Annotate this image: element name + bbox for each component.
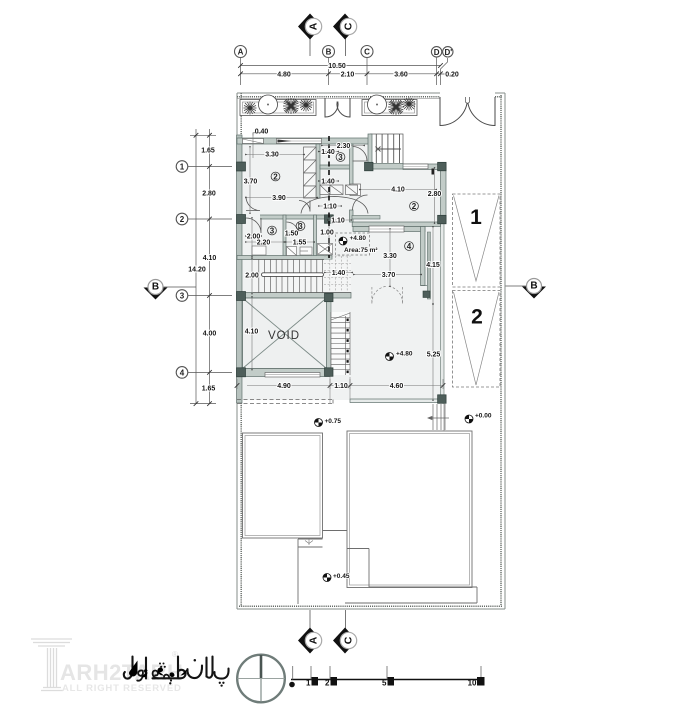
svg-text:B: B — [326, 48, 332, 57]
svg-text:1.40: 1.40 — [321, 149, 335, 156]
svg-text:4.80: 4.80 — [277, 71, 291, 78]
svg-text:2: 2 — [180, 215, 185, 224]
svg-text:B: B — [152, 282, 159, 293]
svg-text:ARH2TARH: ARH2TARH — [60, 660, 183, 685]
svg-text:C: C — [343, 22, 355, 30]
svg-text:3: 3 — [270, 227, 275, 236]
svg-text:1.40: 1.40 — [321, 179, 335, 186]
svg-text:+0.00: +0.00 — [475, 413, 492, 420]
svg-text:4.10: 4.10 — [203, 255, 217, 262]
svg-text:10.50: 10.50 — [328, 63, 346, 70]
svg-text:A: A — [308, 22, 320, 30]
svg-text:2.20: 2.20 — [257, 240, 271, 247]
svg-text:1: 1 — [470, 206, 482, 229]
svg-text:+0.75: +0.75 — [325, 418, 342, 425]
svg-text:5.25: 5.25 — [427, 352, 441, 359]
svg-text:4.10: 4.10 — [391, 187, 405, 194]
svg-text:3.30: 3.30 — [265, 151, 279, 158]
svg-text:3.70: 3.70 — [382, 272, 396, 279]
svg-text:2: 2 — [273, 173, 278, 182]
svg-text:0.20: 0.20 — [445, 72, 459, 79]
svg-text:4: 4 — [407, 242, 412, 251]
svg-text:3.60: 3.60 — [394, 71, 408, 78]
svg-text:14.20: 14.20 — [188, 267, 206, 274]
svg-text:10: 10 — [468, 679, 477, 688]
svg-text:Area:75 m²: Area:75 m² — [344, 247, 378, 254]
svg-text:4.90: 4.90 — [277, 383, 291, 390]
svg-text:3: 3 — [180, 292, 185, 301]
svg-text:2.80: 2.80 — [428, 191, 442, 198]
svg-text:1.00: 1.00 — [320, 230, 334, 237]
svg-text:+4.80: +4.80 — [350, 235, 367, 242]
svg-text:0.40: 0.40 — [255, 129, 269, 136]
svg-text:+0.45: +0.45 — [333, 573, 350, 580]
svg-text:2.30: 2.30 — [337, 143, 351, 150]
svg-text:D: D — [434, 48, 440, 57]
svg-text:5: 5 — [382, 679, 387, 688]
svg-text:1.40: 1.40 — [332, 270, 346, 277]
svg-text:D': D' — [444, 48, 452, 57]
svg-text:4.15: 4.15 — [426, 262, 440, 269]
svg-text:3.30: 3.30 — [383, 253, 397, 260]
svg-text:1.65: 1.65 — [201, 148, 215, 155]
svg-text:4.00: 4.00 — [203, 331, 217, 338]
svg-text:1.10: 1.10 — [331, 217, 345, 224]
svg-text:ALL RIGHT RESERVED: ALL RIGHT RESERVED — [62, 683, 182, 694]
svg-text:4.60: 4.60 — [390, 383, 404, 390]
svg-text:1.10: 1.10 — [323, 204, 337, 211]
svg-text:1: 1 — [306, 679, 311, 688]
svg-text:4: 4 — [180, 368, 185, 377]
svg-text:2: 2 — [325, 679, 330, 688]
svg-text:1.10: 1.10 — [334, 383, 348, 390]
svg-text:3.90: 3.90 — [272, 195, 286, 202]
svg-text:1.65: 1.65 — [202, 386, 216, 393]
svg-text:4.10: 4.10 — [245, 329, 259, 336]
svg-text:2: 2 — [412, 202, 417, 211]
svg-text:3: 3 — [298, 222, 303, 231]
svg-text:2.80: 2.80 — [202, 191, 216, 198]
svg-text:1: 1 — [180, 163, 185, 172]
svg-text:3.70: 3.70 — [244, 179, 258, 186]
svg-text:2.00: 2.00 — [245, 273, 259, 280]
svg-text:2.10: 2.10 — [341, 71, 355, 78]
svg-text:C: C — [343, 636, 355, 644]
svg-text:2: 2 — [471, 306, 483, 329]
svg-text:B: B — [530, 281, 537, 292]
svg-text:1.50: 1.50 — [285, 231, 299, 238]
svg-text:C: C — [364, 48, 370, 57]
svg-text:+4.80: +4.80 — [396, 351, 413, 358]
svg-text:3: 3 — [338, 153, 343, 162]
svg-text:1.55: 1.55 — [293, 240, 307, 247]
svg-text:A: A — [238, 48, 244, 57]
svg-text:VOID: VOID — [268, 330, 300, 342]
svg-text:A: A — [308, 636, 320, 644]
